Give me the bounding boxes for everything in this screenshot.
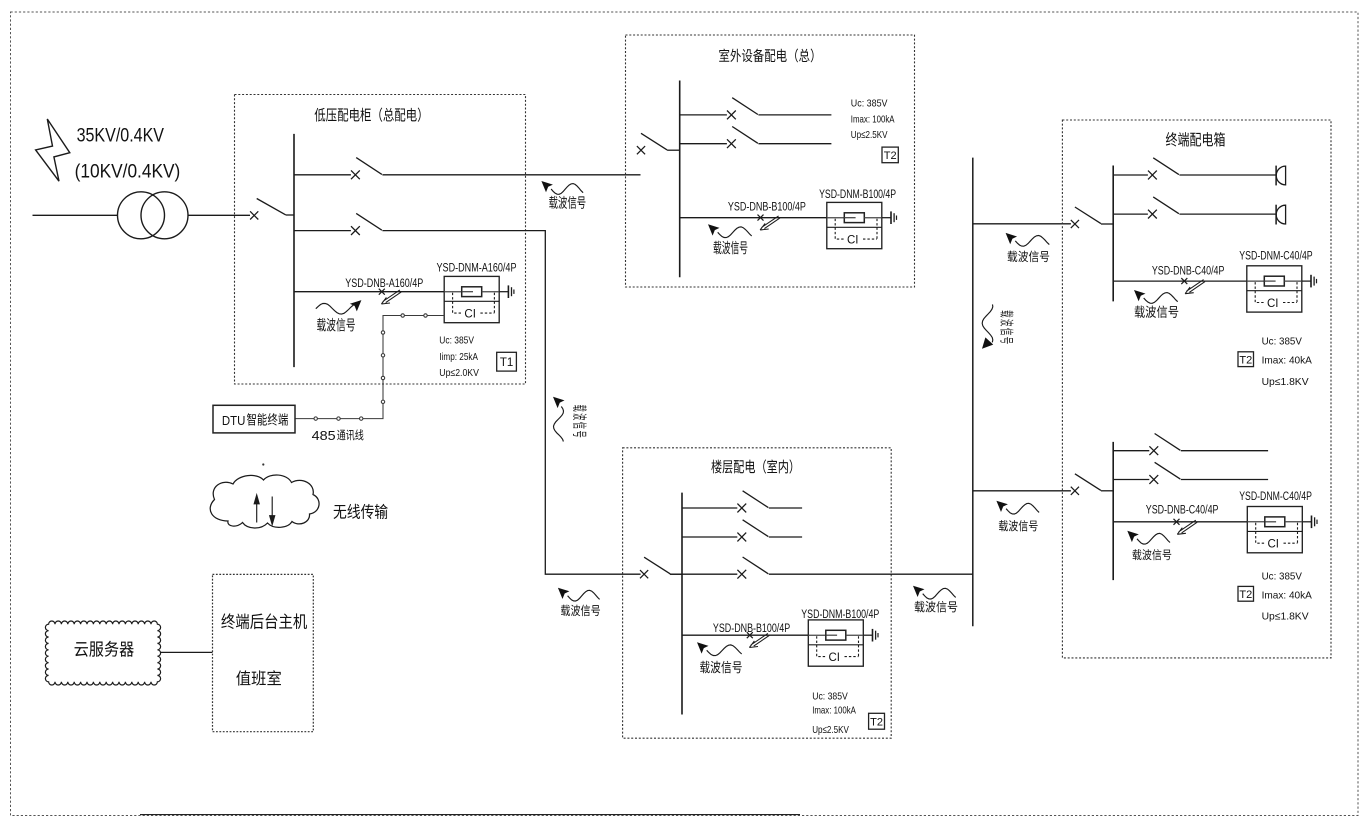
breaker outdoor branch 2	[680, 127, 832, 149]
busbar terminal lower	[1112, 442, 1114, 580]
breaker contact X (YSD-DNB-C40/4P upper)	[1181, 278, 1187, 284]
carrier-signal injection arrow terminal lower	[1177, 520, 1197, 534]
breaker terminal branch 3	[1113, 434, 1268, 456]
carrier-signal injection arrow outdoor	[760, 216, 780, 230]
breaker entry outdoor box	[637, 133, 680, 154]
SPD module F5 C40 (box)	[1247, 507, 1302, 553]
carrier signal label terminal upper SPD	[1134, 290, 1178, 318]
wire SPD F4 C40 to ground	[1302, 280, 1311, 282]
svg-text:485: 485	[312, 429, 336, 443]
svg-text:Up≤2.0KV: Up≤2.0KV	[439, 367, 479, 379]
breaker contact X (YSD-DNB-C40/4P lower)	[1174, 519, 1180, 525]
SPD F1 A160 varistor element	[444, 287, 499, 297]
wire branch1 to outdoor box	[383, 174, 641, 176]
ground of F4 C40	[1311, 275, 1317, 288]
SPD F5 C40 CI dashed bracket	[1256, 523, 1298, 543]
svg-text:Uc: 385V: Uc: 385V	[812, 690, 848, 702]
ground of F1 A160	[508, 285, 514, 298]
carrier signal label to floor entry	[558, 588, 600, 616]
label 无线传输	[334, 504, 388, 519]
carrier-signal injection arrow floor	[749, 633, 769, 647]
ground of F2 B100	[891, 211, 897, 224]
box: outdoor equipment distribution (total)	[626, 35, 915, 287]
SPD F4 C40 CI dashed bracket	[1255, 282, 1297, 302]
wire SPD F5 C40 to ground	[1302, 521, 1311, 523]
svg-text:Imax: 40kA: Imax: 40kA	[1262, 589, 1312, 601]
trunk vertical wire to terminal box	[972, 158, 974, 627]
wire SPD F2 B100 to ground	[882, 217, 891, 219]
T2 class box (outdoor)	[882, 147, 898, 163]
bell load branch 2	[1276, 205, 1286, 225]
svg-text:CI: CI	[847, 235, 859, 247]
wire SPD branch terminal lower	[1113, 521, 1247, 523]
cloud down arrow	[270, 497, 275, 525]
label 值班室	[236, 670, 281, 685]
svg-text:CI: CI	[1268, 539, 1280, 551]
SPD F2 B100 varistor element	[827, 213, 882, 223]
vertical carrier signal on trunk	[982, 304, 1014, 348]
svg-text:YSD-DNB-B100/4P: YSD-DNB-B100/4P	[713, 623, 791, 635]
cloud box 云服务器	[45, 621, 160, 685]
wire from source to transformer T	[33, 214, 118, 216]
ground of F3 B100	[873, 629, 879, 642]
wire transformer to main cabinet	[188, 214, 250, 216]
SPD F3 B100 CI dashed bracket	[817, 636, 859, 656]
ground of F5 C40	[1312, 516, 1318, 529]
box: terminal distribution box	[1062, 120, 1331, 658]
SPD module F3 B100 (box)	[808, 620, 863, 666]
svg-text:Imax: 100kA: Imax: 100kA	[812, 704, 856, 716]
svg-text:T2: T2	[1239, 589, 1252, 601]
breaker entry floor box	[640, 557, 682, 578]
SPD F2 B100 CI dashed bracket	[835, 219, 877, 239]
DTU intelligent terminal box	[213, 405, 295, 433]
svg-text:Imax: 40kA: Imax: 40kA	[1262, 354, 1312, 366]
svg-text:(10KV/0.4KV): (10KV/0.4KV)	[75, 161, 181, 183]
wire SPD F3 B100 to ground	[863, 634, 872, 636]
title 低压配电柜（总配电）	[315, 108, 421, 122]
svg-text:Uc: 385V: Uc: 385V	[851, 98, 888, 110]
svg-text:Up≤2.5KV: Up≤2.5KV	[851, 129, 888, 141]
svg-text:Up≤2.5KV: Up≤2.5KV	[812, 724, 849, 736]
SPD F1 A160 CI dashed bracket	[453, 293, 495, 313]
svg-text:YSD-DNM-B100/4P: YSD-DNM-B100/4P	[819, 189, 896, 201]
svg-text:Uc: 385V: Uc: 385V	[1262, 336, 1302, 348]
title 楼层配电（室内）	[711, 459, 792, 473]
carrier-signal injection arrow terminal upper	[1185, 280, 1205, 294]
svg-text:T2: T2	[1239, 354, 1252, 366]
wire trunk to terminal box lower	[973, 490, 1071, 492]
svg-text:YSD-DNB-B100/4P: YSD-DNB-B100/4P	[728, 201, 806, 213]
busbar main cabinet	[293, 134, 295, 367]
svg-text:Up≤1.8KV: Up≤1.8KV	[1262, 376, 1309, 388]
RS485 communication line with nodes	[296, 314, 445, 421]
wire trunk to terminal box upper	[973, 223, 1071, 225]
box: floor distribution (indoor)	[623, 448, 892, 738]
breaker QF1 main branch 1	[294, 158, 383, 180]
T2 class box (terminal upper)	[1238, 352, 1254, 367]
label 终端后台主机	[221, 613, 307, 629]
busbar terminal upper	[1112, 166, 1114, 302]
svg-text:Up≤1.8KV: Up≤1.8KV	[1262, 611, 1309, 623]
busbar outdoor box	[679, 81, 681, 278]
svg-text:YSD-DNB-C40/4P: YSD-DNB-C40/4P	[1152, 265, 1225, 277]
svg-text:Uc: 385V: Uc: 385V	[1262, 571, 1302, 583]
svg-text:Imax: 100kA: Imax: 100kA	[851, 113, 895, 125]
wire cloud server to host	[161, 651, 213, 653]
breaker QF2 main branch 2	[294, 213, 383, 235]
T1 class box	[497, 352, 517, 371]
carrier signal label outdoor SPD	[708, 224, 752, 254]
SPD module F2 B100 (box)	[827, 202, 882, 248]
svg-text:YSD-DNM-C40/4P: YSD-DNM-C40/4P	[1239, 250, 1313, 262]
breaker terminal branch 2	[1113, 197, 1276, 219]
carrier-signal injection arrow main	[381, 290, 401, 304]
cloud up arrow	[254, 495, 259, 523]
breaker QF0 incoming main	[250, 199, 294, 220]
breaker contact X on SPD branch (YSD-DNB-A160/4P)	[379, 289, 385, 295]
SPD F5 C40 varistor element	[1247, 517, 1302, 527]
title 终端配电箱	[1166, 132, 1225, 147]
SPD module F1 A160 (box)	[444, 276, 499, 322]
breaker contact X (YSD-DNB-B100/4P floor)	[747, 632, 753, 638]
carrier signal label floor output	[913, 586, 957, 613]
stray dot mark	[262, 463, 264, 465]
svg-text:CI: CI	[829, 652, 841, 664]
SPD F3 B100 varistor element	[808, 630, 863, 640]
box terminal backend host / duty room	[213, 574, 314, 731]
SPD F4 C40 varistor element	[1247, 276, 1302, 286]
svg-text:YSD-DNM-A160/4P: YSD-DNM-A160/4P	[437, 262, 517, 274]
lightning strike symbol	[36, 119, 70, 181]
wire SPD branch floor	[682, 634, 808, 636]
wire branch2 right then down to floor box	[383, 231, 641, 575]
svg-text:YSD-DNM-C40/4P: YSD-DNM-C40/4P	[1239, 491, 1312, 503]
T2 class box (floor)	[869, 713, 885, 729]
T2 class box (terminal lower)	[1238, 586, 1254, 601]
svg-text:Iimp: 25kA: Iimp: 25kA	[439, 351, 478, 363]
svg-text:CI: CI	[1267, 298, 1279, 310]
breaker floor branch 2	[682, 520, 802, 542]
cloud symbol wireless transmission	[210, 475, 319, 528]
svg-text:T1: T1	[500, 357, 513, 369]
svg-text:Uc: 385V: Uc: 385V	[439, 334, 474, 346]
breaker terminal branch 4	[1113, 462, 1268, 484]
transformer T (two-winding)	[118, 192, 189, 239]
carrier signal label to outdoor feeder	[541, 181, 585, 209]
carrier signal label terminal lower feed	[996, 501, 1039, 532]
wire SPD branch outdoor	[680, 217, 827, 219]
breaker outdoor branch 1	[680, 98, 832, 120]
wire SPD branch terminal upper	[1113, 280, 1247, 282]
carrier signal label terminal upper feed	[1006, 233, 1050, 262]
vertical carrier signal at x546	[553, 397, 587, 442]
breaker contact X (YSD-DNB-B100/4P)	[758, 215, 764, 221]
title 室外设备配电（总）	[719, 49, 813, 63]
breaker floor through breaker	[670, 557, 973, 579]
busbar floor box	[681, 493, 683, 715]
carrier signal label floor SPD	[697, 642, 742, 673]
svg-text:T2: T2	[884, 150, 897, 162]
carrier signal label terminal lower SPD	[1127, 531, 1171, 560]
breaker terminal branch 1	[1113, 158, 1276, 180]
svg-text:YSD-DNB-C40/4P: YSD-DNB-C40/4P	[1146, 505, 1219, 517]
breaker floor branch 1	[682, 491, 802, 513]
svg-text:CI: CI	[464, 309, 476, 321]
carrier signal label main cabinet	[316, 300, 362, 331]
label 云服务器	[75, 641, 134, 657]
bell load branch 1	[1276, 166, 1286, 186]
breaker entry terminal upper	[1071, 207, 1113, 228]
svg-text:35KV/0.4KV: 35KV/0.4KV	[77, 124, 165, 146]
SPD module F4 C40 (box)	[1247, 266, 1302, 312]
breaker entry terminal lower	[1071, 474, 1113, 495]
svg-text:T2: T2	[870, 717, 883, 729]
svg-text:YSD-DNB-A160/4P: YSD-DNB-A160/4P	[345, 278, 423, 290]
wire SPD branch main cabinet	[294, 291, 444, 293]
wire SPD F1 A160 to ground	[499, 291, 508, 293]
box: low-voltage distribution cabinet (main)	[235, 95, 526, 385]
svg-text:DTU: DTU	[222, 413, 246, 428]
